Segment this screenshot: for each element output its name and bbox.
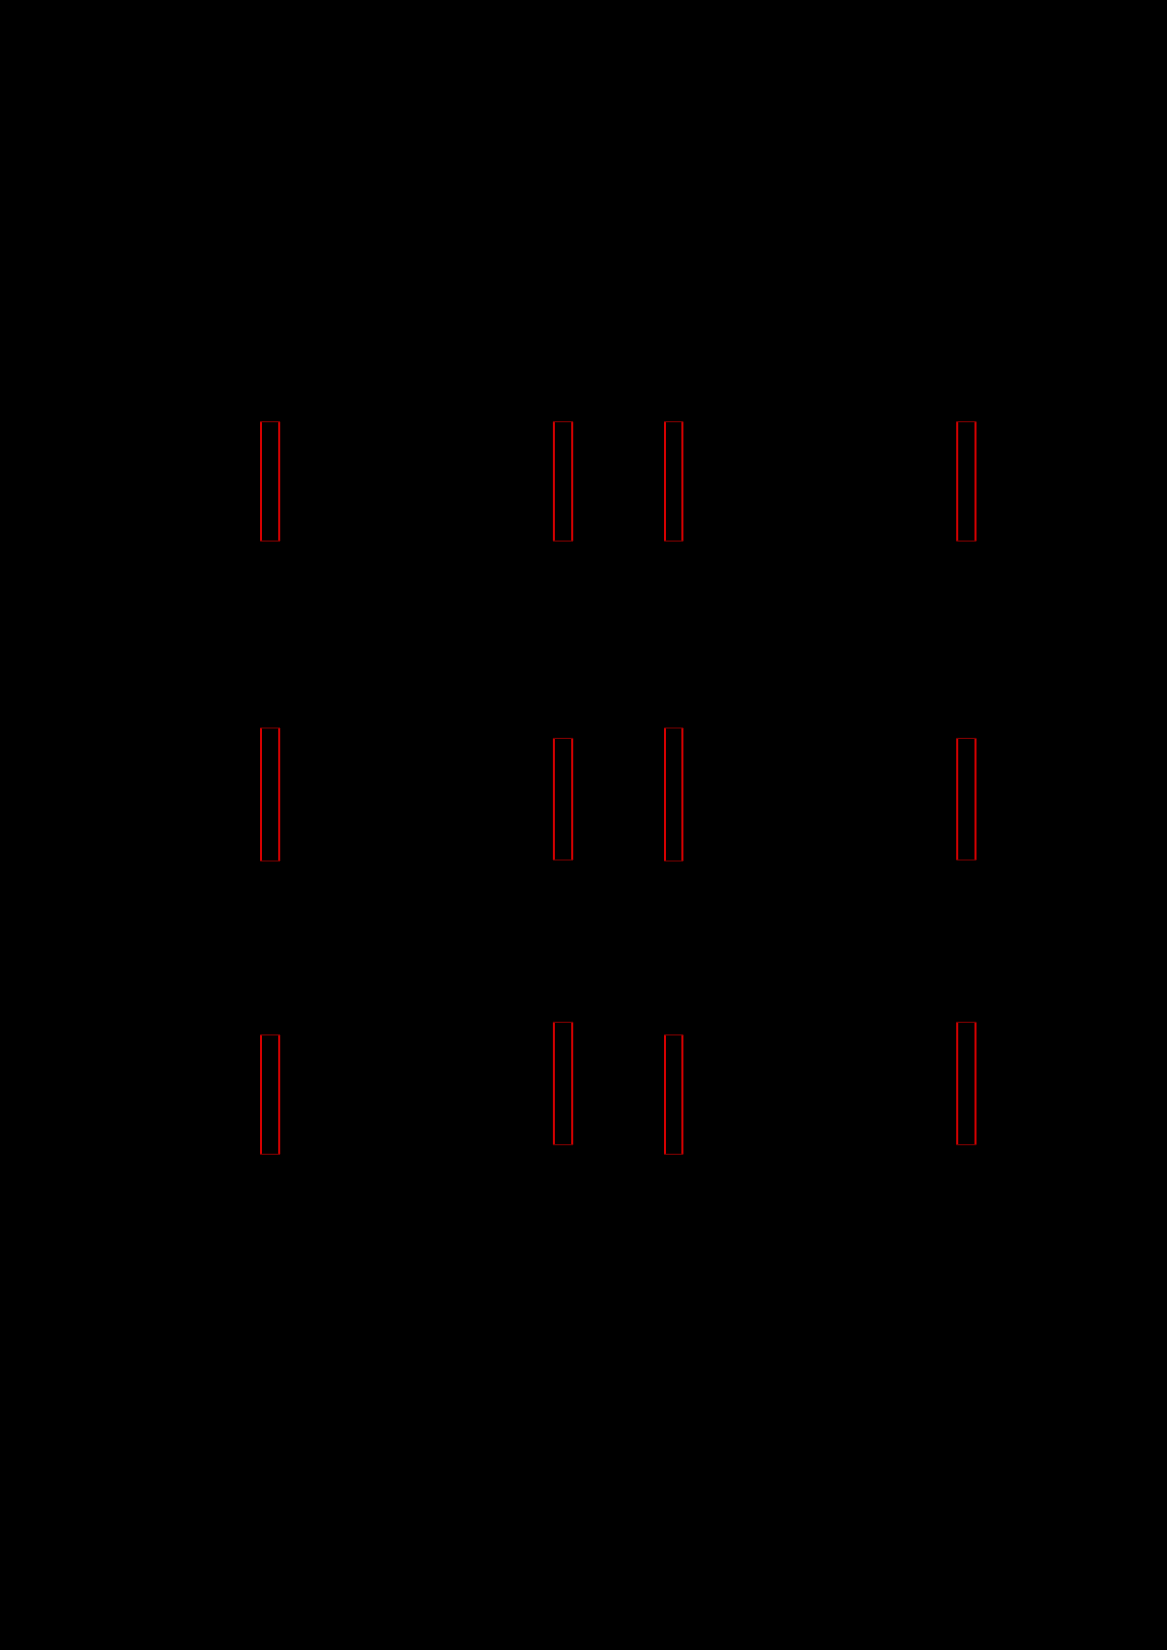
- pad P12 (row3 col4, raised): [956, 1022, 976, 1144]
- pad P2 (row1 col2): [553, 422, 573, 541]
- pad P1 (row1 col1): [260, 422, 280, 541]
- pad P3 (row1 col3): [664, 422, 683, 541]
- pad P4 (row1 col4): [956, 422, 976, 541]
- pad P5 (row2 col1, tall): [260, 728, 280, 861]
- pad P11 (row3 col3): [664, 1035, 683, 1154]
- pad P9 (row3 col1): [260, 1035, 280, 1154]
- pad P10 (row3 col2, raised): [553, 1022, 573, 1144]
- pad P6 (row2 col2): [553, 738, 573, 860]
- pad P8 (row2 col4): [956, 738, 976, 860]
- pad P7 (row2 col3, tall): [664, 728, 683, 861]
